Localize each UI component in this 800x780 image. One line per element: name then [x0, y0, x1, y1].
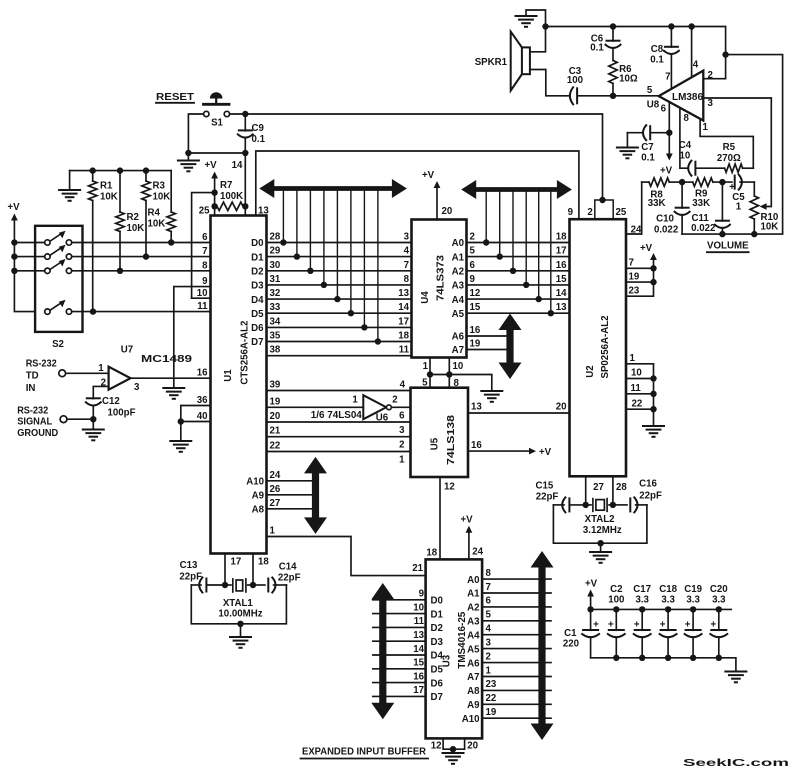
- wire S2 pole1 to U1 pin 6: [72, 232, 211, 246]
- svg-text:12: 12: [431, 740, 442, 751]
- crystal XTAL2: [583, 499, 622, 537]
- wire op-amp pin 6 to +V: [660, 102, 673, 177]
- ground reset: [178, 153, 199, 171]
- svg-text:19: 19: [270, 396, 281, 407]
- svg-text:A8: A8: [467, 686, 480, 697]
- svg-text:0.1: 0.1: [641, 153, 655, 164]
- svg-text:10K: 10K: [761, 222, 779, 233]
- svg-text:D1: D1: [251, 252, 264, 263]
- svg-text:D5: D5: [251, 309, 264, 320]
- svg-text:5: 5: [647, 85, 653, 96]
- svg-text:D2: D2: [251, 267, 263, 278]
- svg-text:D0: D0: [431, 596, 443, 607]
- svg-text:17: 17: [398, 316, 409, 327]
- svg-text:12: 12: [470, 288, 481, 299]
- svg-text:14: 14: [232, 160, 243, 171]
- bus arrow vertical at U3 address side: [531, 551, 554, 740]
- svg-text:16: 16: [470, 325, 481, 336]
- wire U2 pin 28 to XTAL2: [610, 476, 628, 508]
- svg-text:14: 14: [413, 644, 424, 655]
- svg-text:22pF: 22pF: [536, 492, 559, 503]
- wire op-amp pin 1 to R5: [700, 119, 753, 169]
- wire U1 pin 38 to U4 pin 11: [267, 345, 412, 356]
- svg-text:22pF: 22pF: [639, 490, 662, 501]
- capacitor C16: [613, 479, 662, 513]
- svg-text:A7: A7: [452, 345, 464, 356]
- ground U1 pin 9: [163, 388, 184, 399]
- svg-text:+: +: [660, 620, 666, 631]
- terminal RS-232 TD IN: [59, 370, 66, 377]
- svg-text:10K: 10K: [148, 219, 166, 230]
- svg-text:CTS256A-AL2: CTS256A-AL2: [240, 321, 251, 385]
- svg-text:1: 1: [399, 455, 405, 466]
- svg-text:10: 10: [680, 151, 691, 162]
- IC U5 74LS138: [411, 388, 469, 477]
- svg-text:C4: C4: [679, 140, 692, 151]
- svg-text:39: 39: [270, 380, 281, 391]
- svg-text:D6: D6: [251, 323, 264, 334]
- svg-text:1: 1: [270, 526, 276, 537]
- svg-text:20: 20: [270, 411, 281, 422]
- svg-text:0.022: 0.022: [691, 223, 715, 234]
- svg-text:11: 11: [631, 383, 642, 394]
- svg-text:10: 10: [631, 368, 642, 379]
- svg-text:A5: A5: [452, 309, 465, 320]
- capacitor C12: [86, 396, 136, 419]
- capacitor C7: [627, 125, 669, 163]
- svg-text:A4: A4: [452, 295, 465, 306]
- svg-text:74LS373: 74LS373: [436, 254, 447, 301]
- svg-text:19: 19: [486, 707, 497, 718]
- svg-text:U1: U1: [223, 369, 234, 382]
- svg-text:23: 23: [629, 286, 640, 297]
- svg-text:C20: C20: [710, 584, 728, 595]
- svg-text:4: 4: [486, 624, 492, 635]
- capacitor C6: [590, 27, 620, 61]
- pushbutton S1: [204, 92, 230, 128]
- ground U4/U5: [481, 391, 502, 402]
- svg-text:9: 9: [419, 589, 425, 600]
- svg-text:11: 11: [414, 616, 425, 627]
- svg-text:33K: 33K: [692, 198, 710, 209]
- wire RESET line to U2 reset notch: [230, 111, 603, 200]
- svg-text:1: 1: [423, 361, 429, 372]
- svg-text:GROUND: GROUND: [17, 428, 58, 439]
- svg-text:2: 2: [587, 207, 592, 218]
- power +V at U4 pin 20: [422, 170, 452, 220]
- svg-text:4: 4: [404, 246, 410, 257]
- wire XTAL1 frame: [191, 585, 286, 627]
- svg-text:EXPANDED INPUT BUFFER: EXPANDED INPUT BUFFER: [302, 747, 426, 758]
- ground XTAL2: [590, 543, 611, 563]
- svg-text:7: 7: [486, 582, 491, 593]
- svg-text:D6: D6: [431, 678, 444, 689]
- svg-text:+V: +V: [422, 170, 435, 181]
- svg-text:10: 10: [197, 288, 208, 299]
- svg-text:A2: A2: [467, 603, 479, 614]
- svg-text:U5: U5: [430, 437, 441, 450]
- svg-text:3: 3: [134, 382, 140, 393]
- svg-text:7: 7: [404, 260, 409, 271]
- svg-text:1: 1: [630, 353, 636, 364]
- capacitor C2: [608, 584, 625, 658]
- power +V at S2: [7, 202, 44, 312]
- svg-text:20: 20: [442, 206, 453, 217]
- svg-text:18: 18: [556, 232, 567, 243]
- IC U2 SP0256A-AL2: [570, 219, 627, 476]
- resistor R5: [717, 142, 753, 172]
- svg-text:22: 22: [632, 398, 643, 409]
- wire U5 pin 13 to U2 pin 20: [468, 402, 570, 414]
- svg-text:MC1489: MC1489: [141, 354, 193, 365]
- wire U1 address pins A10 A9 A8: [246, 470, 311, 516]
- svg-text:A4: A4: [467, 630, 480, 641]
- wire speaker top terminal to ground rail: [530, 23, 549, 52]
- svg-text:8: 8: [202, 260, 208, 271]
- svg-text:S2: S2: [52, 339, 64, 350]
- capacitor C10: [654, 182, 690, 235]
- svg-text:22pF: 22pF: [278, 573, 301, 584]
- svg-text:1: 1: [98, 363, 104, 374]
- svg-text:100: 100: [567, 75, 583, 86]
- IC U1 CTS256A-AL2: [211, 216, 267, 554]
- svg-text:SeekIC.com: SeekIC.com: [683, 758, 790, 769]
- svg-text:5: 5: [470, 246, 476, 257]
- svg-text:13: 13: [413, 630, 424, 641]
- svg-text:D3: D3: [431, 637, 444, 648]
- label pin 25 of U1: [199, 206, 210, 217]
- svg-text:17: 17: [413, 685, 424, 696]
- svg-text:19: 19: [470, 339, 481, 350]
- svg-text:14: 14: [398, 302, 409, 313]
- svg-text:18: 18: [398, 331, 409, 342]
- svg-text:R7: R7: [220, 180, 232, 191]
- svg-text:C14: C14: [279, 562, 297, 573]
- bus arrow vertical at U4 A6-A7: [499, 314, 522, 380]
- svg-text:12: 12: [444, 482, 455, 493]
- svg-text:28: 28: [616, 482, 627, 493]
- svg-text:8: 8: [684, 113, 690, 124]
- wire U1 pin 21 to U5 pin 2: [267, 426, 411, 451]
- label RS-232 SIGNAL GROUND: [17, 405, 58, 439]
- wire U1 pin 1 to U3 pin 21: [267, 526, 426, 576]
- svg-text:LM386: LM386: [672, 92, 704, 103]
- svg-text:RS-232: RS-232: [17, 405, 48, 416]
- svg-text:+V: +V: [660, 166, 673, 177]
- svg-text:+: +: [608, 620, 614, 631]
- svg-text:+V: +V: [460, 515, 473, 526]
- svg-text:19: 19: [629, 271, 640, 282]
- wire U6 output to U5 pin 6: [391, 407, 410, 421]
- svg-text:17: 17: [231, 557, 242, 568]
- svg-text:D7: D7: [431, 692, 443, 703]
- capacitor C4: [679, 140, 725, 176]
- svg-text:A1: A1: [452, 252, 465, 263]
- svg-text:A3: A3: [452, 281, 465, 292]
- svg-text:+: +: [634, 620, 640, 631]
- svg-text:XTAL2: XTAL2: [585, 514, 615, 525]
- svg-text:24: 24: [472, 546, 483, 557]
- reset notch on U2 pins 2/25: [587, 197, 626, 219]
- wire TD input to U7 pin 1: [66, 363, 109, 374]
- svg-text:A10: A10: [246, 477, 264, 488]
- terminal RS-232 SIGNAL GROUND: [60, 416, 67, 423]
- svg-text:D0: D0: [251, 238, 263, 249]
- svg-text:8: 8: [404, 274, 410, 285]
- capacitor C19: [684, 584, 702, 658]
- svg-text:13: 13: [398, 288, 409, 299]
- wire U1 pins 36 and 40 to ground: [178, 395, 211, 441]
- svg-text:1: 1: [736, 201, 742, 212]
- wire R1-R4 top rail: [70, 167, 172, 173]
- svg-text:A1: A1: [467, 589, 480, 600]
- svg-text:35: 35: [270, 331, 281, 342]
- svg-text:A8: A8: [252, 505, 265, 516]
- svg-text:40: 40: [197, 411, 208, 422]
- svg-text:33K: 33K: [648, 198, 666, 209]
- svg-text:C9: C9: [252, 123, 265, 134]
- svg-text:2: 2: [486, 651, 491, 662]
- wire U1 pin 14: [232, 153, 246, 216]
- wire U5 pin 12 to U3 pin 18: [426, 477, 454, 559]
- svg-text:7: 7: [202, 246, 207, 257]
- svg-text:VOLUME: VOLUME: [707, 241, 749, 252]
- svg-text:SP0256A-AL2: SP0256A-AL2: [600, 316, 611, 379]
- speaker SPKR1: [475, 32, 530, 91]
- svg-text:5: 5: [486, 610, 492, 621]
- svg-text:6: 6: [399, 410, 405, 421]
- svg-text:1: 1: [352, 395, 358, 406]
- svg-text:0.1: 0.1: [252, 134, 266, 145]
- svg-text:+V: +V: [585, 579, 598, 590]
- pin number labels U4 left: [398, 232, 409, 342]
- svg-text:22: 22: [270, 441, 281, 452]
- svg-text:3.3: 3.3: [661, 595, 675, 606]
- svg-text:10K: 10K: [127, 223, 145, 234]
- op-amp U8 LM386: [647, 60, 714, 134]
- power +V at U3 pin 24: [460, 515, 483, 560]
- wire S2 pole3 to U1 pin 8: [72, 260, 211, 274]
- svg-text:20: 20: [467, 740, 478, 751]
- svg-text:D5: D5: [431, 665, 444, 676]
- svg-text:D2: D2: [431, 623, 443, 634]
- wire speaker bottom terminal to C3: [530, 70, 566, 96]
- svg-text:11: 11: [399, 345, 410, 356]
- svg-text:U2: U2: [585, 365, 596, 377]
- svg-text:30: 30: [270, 260, 281, 271]
- wire S1 left contact to ground rail: [188, 114, 203, 153]
- svg-text:15: 15: [556, 274, 567, 285]
- svg-text:9: 9: [568, 207, 574, 218]
- resistor R4: [148, 171, 176, 243]
- svg-text:10: 10: [453, 361, 464, 372]
- svg-text:13: 13: [556, 302, 567, 313]
- capacitor C17: [633, 584, 651, 658]
- wire U1 pin 39 to U5 pin 4: [267, 379, 411, 390]
- wire C3 to op-amp pin 5: [610, 85, 659, 99]
- svg-text:2: 2: [392, 395, 397, 406]
- resistor R3: [142, 171, 170, 257]
- resistor R8: [642, 178, 682, 209]
- svg-text:+: +: [685, 620, 691, 631]
- svg-text:U8: U8: [647, 100, 660, 111]
- svg-text:100K: 100K: [220, 191, 243, 202]
- bus drop wires from address arrow to A rows: [483, 190, 554, 317]
- svg-text:21: 21: [270, 426, 281, 437]
- svg-text:6: 6: [661, 104, 667, 115]
- wire U4 A0-A5 rows to U2: [452, 232, 570, 320]
- svg-text:16: 16: [556, 260, 567, 271]
- svg-text:3.3: 3.3: [686, 595, 700, 606]
- wire signal ground to C12: [67, 416, 97, 422]
- wire U1 pin 20 to U5 pin 3: [267, 411, 411, 436]
- svg-text:0.022: 0.022: [654, 224, 678, 235]
- wire U7 output to U1 pin 16: [131, 368, 211, 379]
- wire bypass top rail: [587, 606, 731, 612]
- svg-text:16: 16: [197, 368, 208, 379]
- svg-text:20: 20: [556, 402, 567, 413]
- svg-text:A2: A2: [452, 267, 464, 278]
- wire volume bottom rail: [682, 231, 783, 237]
- svg-text:220: 220: [563, 639, 579, 650]
- svg-text:10K: 10K: [100, 192, 118, 203]
- svg-text:R1: R1: [100, 181, 113, 192]
- svg-text:24: 24: [631, 224, 642, 235]
- ground XTAL1: [230, 624, 251, 648]
- svg-text:31: 31: [270, 274, 281, 285]
- wire U1 pin 10 to +V branch: [192, 288, 211, 299]
- ground of R1-R4 rail: [59, 171, 80, 201]
- svg-text:18: 18: [258, 557, 269, 568]
- ground bypass rail: [725, 672, 746, 683]
- wire U1 pin 9 to ground: [174, 276, 211, 388]
- svg-text:6: 6: [202, 232, 208, 243]
- svg-text:+: +: [593, 620, 599, 631]
- power +V at U2 pins 7/19/23: [626, 243, 657, 297]
- svg-text:3.3: 3.3: [635, 595, 649, 606]
- svg-text:C17: C17: [633, 584, 651, 595]
- wire bypass bottom rail: [591, 655, 736, 672]
- svg-text:27: 27: [270, 498, 281, 509]
- svg-text:29: 29: [270, 246, 281, 257]
- svg-text:3.12MHz: 3.12MHz: [583, 525, 622, 536]
- capacitor C11: [691, 182, 730, 234]
- svg-text:S1: S1: [211, 117, 223, 128]
- svg-text:A10: A10: [462, 714, 480, 725]
- label EXPANDED INPUT BUFFER: [301, 747, 429, 759]
- bus arrow address A0-A5: [461, 180, 572, 199]
- svg-text:C2: C2: [610, 584, 622, 595]
- svg-text:32: 32: [270, 288, 281, 299]
- svg-text:10Ω: 10Ω: [619, 74, 638, 85]
- svg-text:27: 27: [593, 482, 604, 493]
- svg-text:7: 7: [629, 258, 634, 269]
- svg-text:10.00MHz: 10.00MHz: [218, 608, 262, 619]
- svg-text:270Ω: 270Ω: [717, 153, 741, 164]
- wire U1 D0-D7 rows to U4: [251, 232, 411, 349]
- svg-text:D3: D3: [251, 281, 264, 292]
- svg-text:10: 10: [413, 602, 424, 613]
- svg-text:8: 8: [486, 568, 492, 579]
- switch S2 box: [35, 226, 82, 350]
- svg-text:SIGNAL: SIGNAL: [17, 417, 52, 428]
- svg-text:23: 23: [486, 679, 497, 690]
- svg-text:0.1: 0.1: [650, 55, 664, 66]
- wire U2 pins 1/10/11/22 to ground: [626, 353, 657, 426]
- resistor R2: [116, 171, 144, 271]
- resistor R6: [609, 60, 638, 95]
- svg-text:+V: +V: [204, 160, 217, 171]
- wire XTAL2 frame: [553, 505, 647, 547]
- wire U1 pin 19 to inverter U6: [267, 396, 364, 407]
- capacitor C15: [536, 481, 586, 513]
- svg-text:C19: C19: [684, 584, 702, 595]
- svg-text:9: 9: [202, 276, 208, 287]
- svg-text:15: 15: [413, 658, 424, 669]
- svg-text:A6: A6: [452, 332, 465, 343]
- bus arrow vertical at U3 data side: [371, 583, 394, 719]
- svg-text:100pF: 100pF: [108, 408, 136, 419]
- svg-text:A6: A6: [467, 658, 480, 669]
- wire U4 pin 16 A6: [452, 325, 506, 343]
- svg-text:3.3: 3.3: [712, 595, 726, 606]
- crystal XTAL1: [218, 579, 262, 620]
- svg-text:4: 4: [400, 379, 406, 390]
- svg-text:RESET: RESET: [156, 92, 194, 103]
- svg-text:3: 3: [399, 425, 405, 436]
- wire ground rail top: [546, 23, 729, 58]
- capacitor C8: [650, 27, 679, 89]
- svg-text:+V: +V: [7, 202, 20, 213]
- svg-text:25: 25: [616, 207, 627, 218]
- svg-text:D1: D1: [431, 609, 444, 620]
- svg-text:24: 24: [270, 470, 281, 481]
- wire U1 pin 13 to U2 pin 9: [256, 151, 579, 219]
- IC U3 TMS4016-25: [426, 559, 483, 738]
- svg-text:+V: +V: [539, 447, 552, 458]
- capacitor C9: [238, 114, 266, 153]
- svg-text:R3: R3: [153, 181, 166, 192]
- svg-text:11: 11: [197, 301, 208, 312]
- wire U4 pin 19 A7: [452, 339, 506, 357]
- wire S2 pole2 to U1 pin 7: [72, 246, 211, 260]
- svg-text:16: 16: [413, 671, 424, 682]
- svg-text:C16: C16: [639, 479, 657, 490]
- svg-text:1: 1: [486, 665, 492, 676]
- switch S2 pole 4: [45, 300, 72, 315]
- ground C12: [83, 419, 104, 440]
- wire U4 pins 1/10 to U5 pins 5/8 and ground: [422, 358, 492, 392]
- svg-text:18: 18: [426, 548, 437, 559]
- wire U1 pin 22 to U5 pin 1: [267, 441, 411, 466]
- svg-text:+V: +V: [640, 243, 653, 254]
- svg-text:6: 6: [486, 596, 492, 607]
- svg-text:21: 21: [412, 563, 423, 574]
- svg-text:+: +: [710, 620, 716, 631]
- wire U3 D0-D7 rows: [373, 589, 444, 704]
- svg-text:SPKR1: SPKR1: [475, 57, 508, 68]
- svg-text:15: 15: [470, 302, 481, 313]
- svg-text:C13: C13: [180, 560, 198, 571]
- svg-text:1: 1: [703, 122, 709, 133]
- svg-text:U3: U3: [442, 654, 453, 667]
- svg-text:C7: C7: [641, 142, 653, 153]
- svg-text:C18: C18: [659, 584, 677, 595]
- svg-text:C15: C15: [536, 481, 554, 492]
- ground U2 pins: [643, 426, 664, 437]
- bus arrow vertical at U1 A8-A10: [304, 457, 327, 534]
- watermark SeekIC.com: [683, 758, 790, 769]
